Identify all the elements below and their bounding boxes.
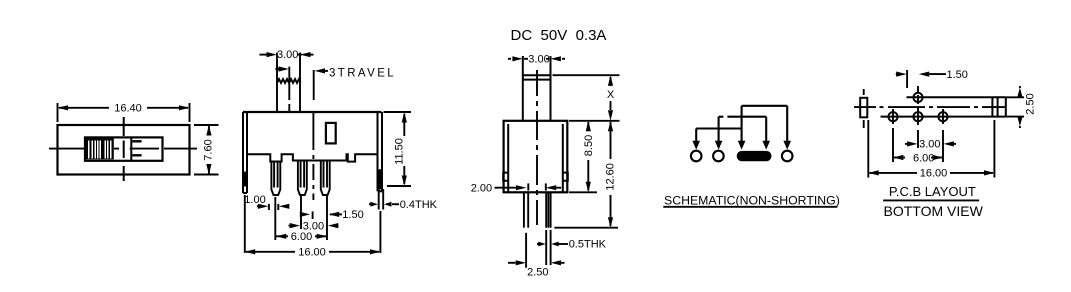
front view pin 3 [321,161,330,196]
travel arrow left [279,66,289,71]
knob top extension line [553,74,620,76]
svg-text:X: X [607,89,615,101]
pcb outline right end [1005,97,1007,116]
travel arrow right with 3TRAVEL label [315,68,325,73]
dimension 2.50 (pcb) [1006,86,1024,128]
svg-text:0.5THK: 0.5THK [569,239,607,251]
pcb hole top [913,93,922,102]
dimension 6.00 [276,235,327,237]
top view slider knob (knurled, black) [85,137,114,159]
dimension 16.40 [58,103,190,122]
front view knob sides [277,53,300,113]
pcb hole center vertical marks [893,86,943,125]
side view rear pin row [546,192,550,227]
dimension 16.00 (front) [245,195,381,253]
svg-text:12.60: 12.60 [605,163,617,191]
dimension 1.50 [300,211,342,219]
dimension 8.50 [587,122,589,191]
dimension 3.00 (pcb) [905,130,956,162]
pin 3 center extension [326,196,328,240]
dimension 3.00 (pin pitch) [289,225,339,227]
body bottom extension line [569,191,597,193]
top view inner cavity outline [85,137,163,160]
pcb right mounting slot [991,97,993,116]
schematic wiper (black stadium) [737,151,772,161]
side view front pin row [524,192,528,227]
dimension 2.50 (side) [508,262,565,264]
schematic terminal circle 2 [713,151,724,162]
side view knob [523,56,551,121]
dimension 7.60 [194,125,219,175]
body top extension line [569,120,620,122]
top view outer body outline [58,125,190,175]
front view hole rectangle [326,123,336,143]
svg-text:6.00: 6.00 [291,231,312,243]
svg-text:2.50: 2.50 [527,266,548,278]
top view contact bottom tab [132,154,141,156]
dimension 0.5THK [537,243,539,245]
wire: vertical through to wiper left [741,106,743,142]
svg-text:16.40: 16.40 [114,103,142,115]
side view body outline [504,121,568,193]
front view knob serrated top (zigzag) [277,79,301,83]
dimension 12.60 [610,122,612,226]
dimension 3.00 (knob width) [277,54,302,56]
svg-text:1.00: 1.00 [244,194,265,206]
wire: middle horizontal with crossover gap [719,116,724,118]
svg-text:16.00: 16.00 [298,247,326,259]
front view bottom profile with bosses [247,154,378,161]
svg-text:6.00: 6.00 [913,152,934,164]
pin 1 center extension [274,197,276,240]
front view body outline [243,111,382,113]
front view right flange solder tab (black) [377,169,383,189]
svg-text:0.4THK: 0.4THK [400,199,438,211]
wire: vertical to terminal 2 [718,117,720,142]
schematic wires [696,106,787,142]
svg-text:1.50: 1.50 [342,209,363,221]
svg-text:3.00: 3.00 [528,54,549,66]
wire: vertical to terminal 1 [695,129,697,143]
side view inner flange lines [503,124,568,192]
dimension 6.00 (pcb) [893,128,943,162]
pin 2 center extension [300,196,302,229]
travel position line (right) [313,70,315,100]
pcb outline bottom edge [881,116,1006,118]
dimension 11.50 [384,112,412,186]
wire: top horizontal [742,105,788,107]
pcb hole A [888,112,897,121]
travel position line (left) [288,67,290,112]
svg-text:DC 50V 0.3A: DC 50V 0.3A [511,27,607,44]
svg-text:3.00: 3.00 [277,49,298,61]
svg-text:8.50: 8.50 [583,135,595,156]
svg-text:P.C.B LAYOUT: P.C.B LAYOUT [889,184,976,199]
svg-text:2.00: 2.00 [471,183,492,195]
side view vertical centerline [536,70,538,225]
pcb left slot centerline [863,89,865,128]
wire: vertical to terminal 4 [786,106,788,142]
svg-text:SCHEMATIC(NON-SHORTING): SCHEMATIC(NON-SHORTING) [664,194,840,208]
top view vertical centerline [123,117,125,181]
schematic terminal circle 1 [691,151,702,162]
wire: lower horizontal [696,127,741,129]
top view horizontal centerline [49,148,197,150]
front view right flange edge-on extension [379,189,384,210]
pcb outline top edge [907,96,1006,98]
svg-text:3.00: 3.00 [919,139,940,151]
svg-text:11.50: 11.50 [393,138,405,165]
top view contact top tab [132,140,141,142]
front view left flange solder tab (black) [242,172,248,187]
top view contact divider bar [130,137,132,160]
pcb left mounting slot [860,98,867,118]
dimension X [610,77,612,110]
front view vertical centerline [312,112,314,200]
pcb hole B [913,112,922,121]
pcb horizontal centerline [854,106,1006,108]
dimension 16.00 (pcb) [868,120,994,178]
front view right flange [378,112,383,191]
pcb hole C [938,112,947,121]
svg-text:BOTTOM VIEW: BOTTOM VIEW [884,203,984,219]
svg-text:3TRAVEL: 3TRAVEL [329,68,396,80]
dimension 3.00 (side knob) [508,58,565,60]
svg-text:7.60: 7.60 [203,139,215,160]
svg-text:2.50: 2.50 [1025,93,1037,114]
dimension 1.50 (pcb) [896,70,946,88]
dimension 0.4THK [369,203,399,205]
front view left flange [243,112,247,193]
front view pin 1 [271,162,280,196]
front view pin 2 [298,161,307,196]
schematic arrows [692,141,700,150]
wire: vertical to wiper right [765,117,767,142]
pin bottom extension line [554,227,618,229]
svg-text:16.00: 16.00 [920,168,948,180]
svg-text:1.50: 1.50 [947,69,968,81]
schematic terminal circle 4 [782,151,793,162]
pin thickness extensions [526,230,551,268]
